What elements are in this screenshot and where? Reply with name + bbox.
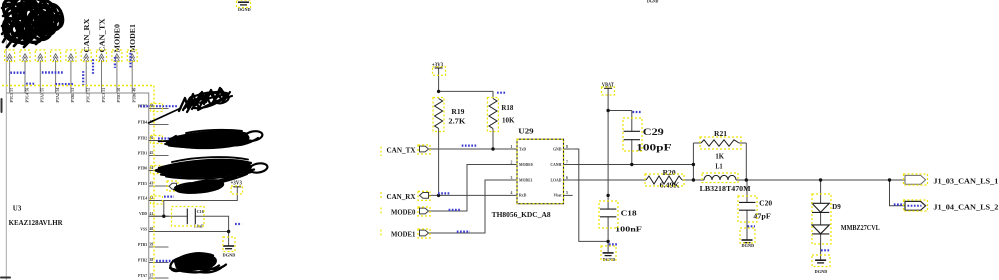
svg-text:55: 55 <box>41 88 45 92</box>
svg-text:PTC3: PTC3 <box>102 93 106 103</box>
svg-text:PTB3: PTB3 <box>138 243 147 247</box>
svg-text:PTA7: PTA7 <box>138 274 147 278</box>
svg-text:R20: R20 <box>663 169 677 177</box>
svg-text:40: 40 <box>150 227 154 231</box>
svg-text:MODE0: MODE0 <box>519 163 533 167</box>
svg-text:LOAD: LOAD <box>551 178 562 182</box>
svg-text:MODE0: MODE0 <box>391 208 416 216</box>
svg-text:MODE1: MODE1 <box>519 178 533 182</box>
svg-text:PTD6: PTD6 <box>133 93 137 103</box>
svg-text:41: 41 <box>150 212 154 216</box>
svg-text:VSS: VSS <box>140 227 147 231</box>
svg-text:1: 1 <box>511 145 513 149</box>
svg-text:CAN_RX: CAN_RX <box>387 193 416 201</box>
svg-text:CANH: CANH <box>550 163 561 167</box>
svg-text:37: 37 <box>150 274 154 278</box>
svg-text:51: 51 <box>102 88 106 92</box>
svg-text:PTC4: PTC4 <box>25 93 29 103</box>
svg-text:1K: 1K <box>715 152 724 160</box>
svg-text:6: 6 <box>566 176 568 180</box>
svg-text:C20: C20 <box>759 199 773 207</box>
svg-text:PTD2: PTD2 <box>138 136 148 140</box>
svg-text:39: 39 <box>150 243 154 247</box>
svg-text:PTA3: PTA3 <box>41 93 45 102</box>
svg-text:PTB5: PTB5 <box>138 104 147 108</box>
svg-text:J1_04_CAN_LS_2: J1_04_CAN_LS_2 <box>933 203 999 211</box>
svg-text:DGND: DGND <box>647 0 659 3</box>
svg-text:PTC2: PTC2 <box>87 93 91 103</box>
svg-text:C16: C16 <box>197 209 204 214</box>
svg-text:CAN_RX: CAN_RX <box>83 19 91 53</box>
svg-text:J1_03_CAN_LS_1: J1_03_CAN_LS_1 <box>933 177 999 185</box>
svg-text:C18: C18 <box>621 209 638 217</box>
svg-text:57: 57 <box>10 88 14 92</box>
svg-text:56: 56 <box>25 88 29 92</box>
svg-text:43: 43 <box>150 182 154 186</box>
svg-text:PTD1: PTD1 <box>138 151 148 155</box>
svg-text:PTD7: PTD7 <box>117 93 121 103</box>
svg-text:R19: R19 <box>451 108 465 116</box>
svg-text:2: 2 <box>511 160 513 164</box>
svg-text:4: 4 <box>511 191 513 195</box>
svg-text:DGND: DGND <box>223 253 236 258</box>
svg-text:MODE1: MODE1 <box>391 230 416 238</box>
svg-text:KEAZ128AVLHR: KEAZ128AVLHR <box>9 219 64 227</box>
svg-text:MMBZ27CVL: MMBZ27CVL <box>841 224 880 232</box>
svg-text:C29: C29 <box>643 128 664 138</box>
svg-text:VBAT: VBAT <box>602 82 614 89</box>
svg-text:PTB1: PTB1 <box>71 93 75 102</box>
svg-text:10K: 10K <box>502 117 515 125</box>
svg-text:PTB4: PTB4 <box>138 120 147 124</box>
svg-text:PTC5: PTC5 <box>10 93 14 103</box>
svg-text:8: 8 <box>566 145 568 149</box>
svg-text:DGND: DGND <box>815 269 828 274</box>
svg-text:MODE1: MODE1 <box>129 23 137 52</box>
svg-text:RxD: RxD <box>519 194 527 198</box>
svg-text:5: 5 <box>566 191 568 195</box>
svg-text:DGND: DGND <box>742 243 755 248</box>
svg-text:VDD: VDD <box>139 212 147 216</box>
svg-text:TH8056_KDC_A8: TH8056_KDC_A8 <box>492 211 552 219</box>
svg-text:R18: R18 <box>501 104 513 112</box>
svg-text:PTD0: PTD0 <box>138 166 148 170</box>
svg-text:2.7K: 2.7K <box>448 118 466 126</box>
svg-text:Vbat: Vbat <box>553 194 562 198</box>
svg-text:38: 38 <box>150 258 154 262</box>
svg-text:U3: U3 <box>13 204 22 212</box>
svg-text:CAN_TX: CAN_TX <box>387 147 416 155</box>
svg-text:49: 49 <box>133 88 137 92</box>
svg-text:TxD: TxD <box>519 147 526 151</box>
svg-text:54: 54 <box>56 88 60 92</box>
svg-text:CAN_TX: CAN_TX <box>98 19 106 53</box>
svg-text:47pF: 47pF <box>753 213 770 221</box>
svg-text:52: 52 <box>87 88 91 92</box>
svg-text:L1: L1 <box>715 162 723 170</box>
svg-text:100nF: 100nF <box>615 226 642 234</box>
svg-text:LB3218T470M: LB3218T470M <box>700 185 751 193</box>
svg-text:U29: U29 <box>518 127 534 135</box>
svg-text:PTB2: PTB2 <box>138 258 147 262</box>
svg-text:+3V3: +3V3 <box>231 179 243 186</box>
svg-text:3: 3 <box>511 176 513 180</box>
svg-text:45: 45 <box>150 151 154 155</box>
svg-text:GND: GND <box>553 147 562 151</box>
svg-text:PTE5: PTE5 <box>138 182 147 186</box>
svg-text:PTE4: PTE4 <box>138 196 147 200</box>
svg-text:7: 7 <box>566 160 568 164</box>
svg-text:DGND: DGND <box>603 257 616 262</box>
svg-text:PTA2: PTA2 <box>56 93 60 102</box>
svg-text:MODE0: MODE0 <box>114 23 122 52</box>
svg-text:50: 50 <box>117 88 121 92</box>
svg-text:53: 53 <box>71 88 75 92</box>
svg-text:D9: D9 <box>832 203 841 211</box>
